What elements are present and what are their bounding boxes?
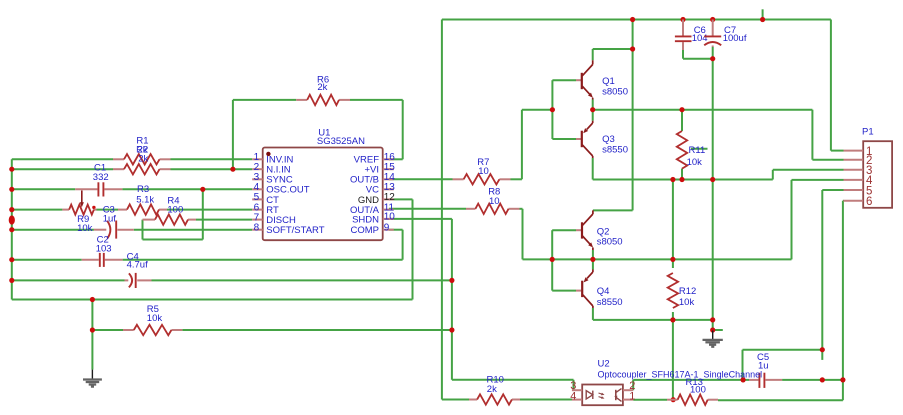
svg-text:10: 10 bbox=[489, 196, 500, 207]
svg-text:4: 4 bbox=[570, 390, 576, 402]
svg-text:R12: R12 bbox=[679, 286, 696, 297]
svg-text:2k: 2k bbox=[317, 82, 327, 93]
wire U2 pin2 riser / C5 row bbox=[633, 380, 843, 390]
wire pin6 row (RT / R9 R3) bbox=[12, 209, 252, 211]
svg-text:332: 332 bbox=[93, 172, 109, 183]
wire SHDN pin10 drop to U2 pin3 bbox=[389, 219, 574, 390]
U1 pin names left bbox=[266, 155, 324, 236]
resistor R6 bbox=[296, 75, 350, 106]
svg-text:100uf: 100uf bbox=[723, 33, 747, 44]
svg-text:2k: 2k bbox=[487, 384, 497, 395]
resistor R8 bbox=[466, 187, 520, 215]
wire Q2 emitter / Q4 emitter node bbox=[592, 250, 594, 270]
svg-text:6: 6 bbox=[866, 196, 872, 208]
svg-text:9: 9 bbox=[384, 222, 390, 233]
junction dots push-pull top bbox=[550, 46, 716, 112]
node left bus vertical bbox=[11, 159, 13, 299]
wire R8 to push-pull bases (bottom) bbox=[520, 209, 553, 260]
svg-text:2k: 2k bbox=[138, 154, 148, 165]
resistor R3 bbox=[118, 184, 167, 215]
svg-text:1uf: 1uf bbox=[103, 214, 117, 225]
junction dots bottom right bbox=[671, 347, 846, 402]
wire floating stub near R11 label bbox=[691, 148, 708, 150]
svg-text:10k: 10k bbox=[77, 223, 93, 234]
potentiometer R9 with wiper arrow bbox=[62, 191, 96, 235]
op-amp U1 SG3525AN IC body bbox=[263, 128, 383, 241]
wire Q3 collector down to row bbox=[592, 158, 594, 180]
ground symbol (right, near C5) bbox=[703, 331, 723, 347]
U1 pin numbers left bbox=[254, 152, 260, 233]
svg-text:U2: U2 bbox=[598, 359, 610, 370]
U1 left pins 1-8 stubs bbox=[252, 159, 263, 229]
wire Q1 emitter / Q3 emitter node bbox=[592, 100, 594, 121]
resistor R7 bbox=[453, 157, 511, 185]
wire Q4 collector row bbox=[593, 308, 713, 320]
resistor R13 bbox=[667, 377, 718, 405]
capacitor C6 bbox=[675, 20, 708, 51]
wire P1 pin6 column to bottom row bbox=[718, 201, 844, 400]
svg-text:100: 100 bbox=[167, 205, 183, 216]
svg-text:COMP: COMP bbox=[351, 225, 380, 236]
U1 right pins 16-9 stubs bbox=[383, 159, 394, 229]
capacitor C7 (polarized) bbox=[704, 20, 747, 48]
wire Q2 collector link bbox=[593, 209, 633, 211]
wire R7 to push-pull bases (top) bbox=[511, 110, 553, 180]
wire R10 row to U2 pin4 bbox=[442, 399, 572, 401]
transistor Q3 s8550 PNP bbox=[576, 121, 628, 158]
svg-text:4.7uf: 4.7uf bbox=[127, 260, 148, 271]
resistor R10 bbox=[469, 375, 520, 405]
wire ground column (C6/C7 bottoms to GND symbol) bbox=[713, 47, 723, 330]
wire Q1 collector to top rail drop bbox=[593, 49, 633, 60]
junction dots top rail bbox=[630, 17, 765, 22]
svg-text:SG3525AN: SG3525AN bbox=[317, 136, 365, 147]
svg-text:100: 100 bbox=[690, 385, 706, 396]
wire pin8 row (SOFT/START / C3) bbox=[12, 229, 252, 231]
wire C6 bottom link bbox=[683, 50, 713, 59]
U1 pin names right bbox=[350, 155, 380, 236]
wire OUT/B pin14 to R7 bbox=[389, 178, 453, 180]
svg-text:104: 104 bbox=[692, 33, 708, 44]
wire OUT/A pin11 to R8 bbox=[389, 208, 466, 210]
wire P1 pin5 drop to C5 net bbox=[743, 190, 844, 380]
capacitor C3 (polarized) bbox=[94, 205, 134, 239]
svg-text:SOFT/START: SOFT/START bbox=[266, 225, 324, 236]
wire R11 bottom lead bbox=[681, 169, 683, 180]
capacitor C4 (polarized) bbox=[125, 252, 152, 288]
optocoupler U2 SFH617A bbox=[570, 359, 762, 406]
svg-text:s8550: s8550 bbox=[597, 297, 623, 308]
svg-text:SHDN: SHDN bbox=[352, 214, 379, 225]
wire R5 row bbox=[92, 329, 452, 331]
svg-text:5.1k: 5.1k bbox=[136, 195, 154, 206]
U1 pin numbers right bbox=[384, 152, 396, 233]
svg-text:Q4: Q4 bbox=[597, 286, 610, 297]
svg-text:s8050: s8050 bbox=[597, 236, 623, 247]
svg-text:s8550: s8550 bbox=[602, 145, 628, 156]
wire R6 feedback loop bbox=[233, 100, 403, 169]
wire pin4 row (OSC.OUT / C1) bbox=[12, 188, 252, 190]
wire pin2 row (N.I.IN) bbox=[12, 168, 252, 170]
junction dots misc left bbox=[90, 167, 236, 333]
wire COMP pin9 row bbox=[389, 229, 403, 231]
svg-text:Optocoupler_SFH617A-1_SingleCh: Optocoupler_SFH617A-1_SingleChannel bbox=[598, 370, 763, 380]
svg-text:8: 8 bbox=[254, 222, 260, 233]
wire GND row (pin12 net) bbox=[12, 199, 413, 299]
resistor R2 bbox=[113, 144, 171, 174]
wire Q3-collector row (to P1 pin3 jog) bbox=[593, 170, 844, 180]
resistor R1 bbox=[113, 136, 171, 165]
wire stub above top rail bbox=[762, 9, 764, 19]
capacitor C2 bbox=[82, 234, 123, 267]
connector P1 bbox=[844, 127, 893, 209]
wire C2 row to COMP drop bbox=[12, 230, 403, 260]
svg-text:103: 103 bbox=[96, 243, 112, 254]
junction dots SHDN vertical bbox=[449, 278, 454, 333]
resistor R12 (vertical) bbox=[668, 273, 697, 308]
svg-text:10: 10 bbox=[384, 212, 396, 223]
wire vertical top-rail to Q2 collector bbox=[632, 20, 634, 211]
transistor Q4 s8550 PNP bbox=[576, 270, 623, 309]
wire pin1 row (INV.IN) bbox=[12, 158, 252, 160]
wire Q1/Q3 base vertical bbox=[552, 80, 576, 139]
svg-text:10: 10 bbox=[478, 166, 489, 177]
wire left long vertical (top rail down to R10 row) bbox=[441, 20, 443, 400]
capacitor C5 bbox=[749, 352, 782, 388]
capacitor C1 bbox=[75, 162, 122, 196]
wire U2 pin1 to R13 bbox=[633, 399, 667, 401]
wire R11 top lead from mid wire bbox=[681, 110, 683, 131]
wire R4 loop to DISCH pin7 bbox=[143, 189, 253, 239]
resistor R11 (vertical) bbox=[677, 131, 705, 169]
svg-text:1: 1 bbox=[629, 390, 635, 402]
wire Q2/Q4 base vertical bbox=[552, 230, 576, 290]
resistor R5 bbox=[123, 304, 182, 335]
wire emitter row to P1 pin4 drop bbox=[552, 180, 843, 260]
wire C4 row to SHDN vertical bbox=[12, 279, 452, 281]
ground symbol (left, at R5) bbox=[83, 370, 102, 387]
transistor Q1 s8050 NPN bbox=[576, 60, 628, 99]
wire R12 column (row179 to R13 row) bbox=[672, 180, 674, 400]
svg-text:s8050: s8050 bbox=[602, 87, 628, 98]
svg-text:Q1: Q1 bbox=[602, 76, 615, 87]
svg-text:10k: 10k bbox=[147, 313, 163, 324]
junction dots emitter row / Q4 row bbox=[550, 257, 716, 333]
svg-text:10k: 10k bbox=[679, 297, 695, 308]
svg-text:R11: R11 bbox=[689, 145, 706, 156]
resistor R4 bbox=[143, 195, 197, 225]
transistor Q2 s8050 NPN bbox=[576, 210, 623, 250]
svg-text:P1: P1 bbox=[862, 127, 874, 138]
junction dots row179 bbox=[670, 177, 715, 182]
junction dots left bus bbox=[9, 167, 15, 283]
wire top supply rail bbox=[442, 19, 831, 21]
wire ground drop left bbox=[91, 300, 93, 370]
wire top rail right drop to P1 pin1 bbox=[831, 20, 844, 151]
wire push-pull output (mid) to P1 pin2 bbox=[593, 110, 844, 160]
svg-text:10k: 10k bbox=[687, 157, 703, 168]
